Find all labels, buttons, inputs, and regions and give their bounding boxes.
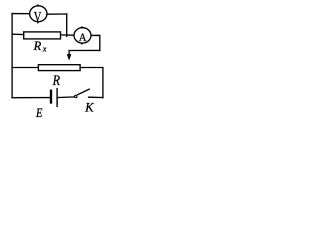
ammeter bottom terminal tick (81, 43, 83, 45)
svg-text:V: V (34, 9, 42, 25)
battery E negative plate (short thick) (50, 90, 52, 104)
wire bottom row left (rail to battery) (12, 97, 50, 99)
svg-text:R: R (33, 39, 42, 53)
ammeter top terminal tick (81, 26, 83, 28)
voltmeter V circle (30, 6, 47, 22)
wire ammeter to right branch corner (91, 35, 100, 50)
rheostat slider arrowhead (67, 54, 72, 61)
wire rheostat row right (80, 68, 103, 98)
ammeter A circle (74, 28, 91, 43)
switch K blade (77, 89, 90, 95)
wire rheostat row left (12, 67, 38, 69)
battery E positive plate (long thin) (56, 88, 58, 107)
svg-text:E: E (35, 106, 42, 119)
wire battery to switch (58, 96, 75, 99)
wire left rail (11, 14, 13, 98)
svg-text:R: R (52, 73, 61, 89)
switch K pivot circle (75, 95, 78, 98)
wire top row right (voltmeter to corner) (47, 13, 67, 15)
wire branch corner to rheostat slider (69, 50, 100, 54)
wire Rx row left (rail to Rx box) (12, 33, 24, 35)
voltmeter top terminal tick (37, 4, 39, 6)
wire top row left (rail to voltmeter) (12, 13, 30, 15)
wire vertical drop from top row to Rx node (66, 14, 68, 36)
svg-text:A: A (79, 30, 87, 44)
wire switch to bottom right corner (89, 96, 103, 98)
voltmeter bottom terminal tick (37, 21, 39, 23)
svg-text:x: x (42, 45, 47, 54)
resistor Rx body (24, 32, 61, 39)
background (0, 0, 113, 119)
wire Rx row right (Rx box to ammeter) (61, 34, 75, 36)
rheostat R body (38, 65, 80, 71)
svg-text:K: K (84, 101, 94, 115)
